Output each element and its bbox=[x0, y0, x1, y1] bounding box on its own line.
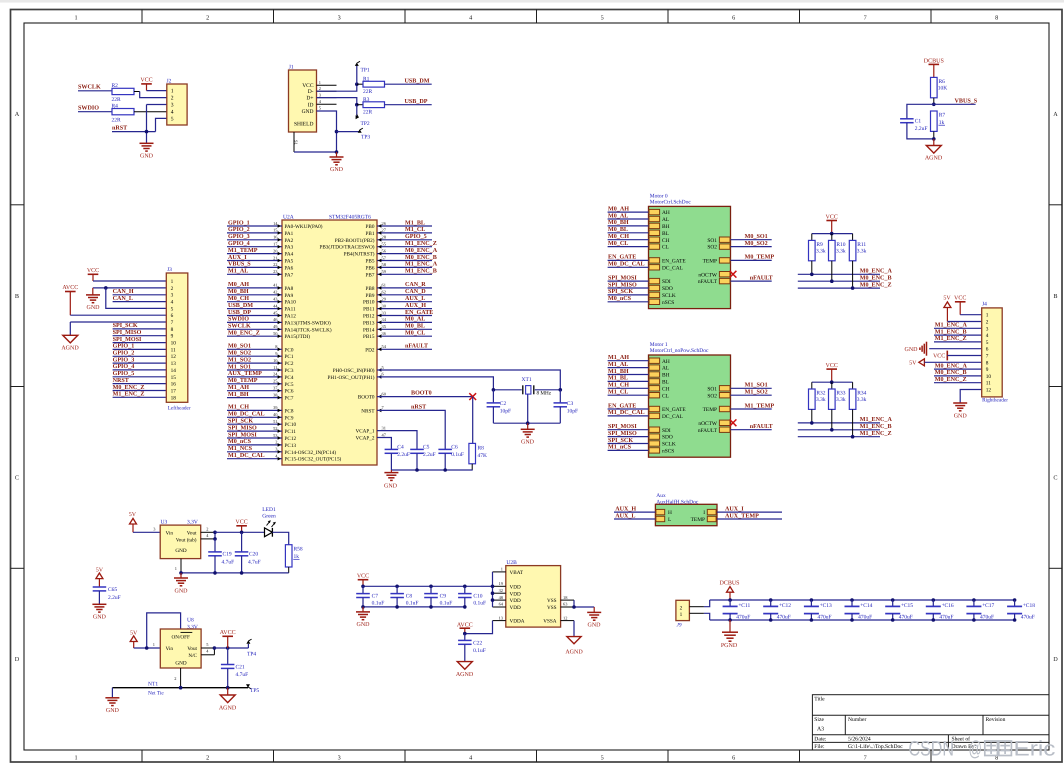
svg-text:PC10: PC10 bbox=[285, 422, 297, 428]
svg-text:GND: GND bbox=[384, 483, 398, 489]
net label USB_DP bbox=[405, 98, 428, 105]
svg-text:PB14: PB14 bbox=[363, 327, 375, 333]
wire SPI_MISO (J3) bbox=[113, 335, 167, 337]
wire GPIO_1 (J3) bbox=[113, 348, 167, 350]
svg-text:M1_AL: M1_AL bbox=[608, 361, 628, 368]
svg-text:0.1uF: 0.1uF bbox=[473, 601, 486, 607]
net label BOOT0 bbox=[411, 390, 432, 397]
wire pullup rail M0 bbox=[812, 233, 853, 235]
power port AVCC (J3) bbox=[62, 285, 78, 315]
svg-text:M1_BL: M1_BL bbox=[405, 219, 425, 226]
net label NRST (J3) bbox=[113, 377, 129, 384]
sheet entry BH / net M0_BH bbox=[608, 219, 670, 230]
junction bank C17 bottom bbox=[972, 618, 976, 622]
svg-text:C9: C9 bbox=[440, 593, 447, 599]
sheet entry SDO / net SPI_MISO bbox=[608, 430, 673, 441]
junction VSS rail C9 bbox=[429, 605, 433, 609]
svg-text:PC4: PC4 bbox=[285, 375, 294, 381]
svg-text:M1_CH: M1_CH bbox=[608, 382, 629, 389]
wire VCAP_2 to C4 bbox=[377, 438, 391, 450]
U2A pin 21 PA5 net AUX_I bbox=[227, 254, 294, 265]
power port VCC (U3 out) bbox=[235, 520, 247, 533]
pin S1 shield stub bbox=[294, 132, 299, 152]
svg-text:C17: C17 bbox=[985, 603, 994, 609]
svg-text:nOCTW: nOCTW bbox=[698, 272, 717, 278]
svg-text:C22: C22 bbox=[473, 641, 482, 647]
capacitor C12 470uF bbox=[763, 600, 791, 620]
svg-text:D-: D- bbox=[308, 89, 314, 95]
testpoint TP3 bbox=[337, 128, 371, 140]
sheet entry CL / net M0_CL bbox=[608, 240, 669, 251]
svg-text:NRST: NRST bbox=[113, 377, 129, 384]
svg-text:51: 51 bbox=[273, 419, 277, 424]
svg-text:M0_DC_CAL: M0_DC_CAL bbox=[608, 261, 645, 268]
sheet entry BL / net M0_BL bbox=[608, 226, 669, 237]
U2A pin 2 PC13 net M0_nCS bbox=[227, 438, 296, 449]
svg-text:VDDA: VDDA bbox=[510, 619, 525, 625]
resistor R6 bbox=[931, 77, 948, 97]
svg-text:A: A bbox=[1053, 111, 1058, 118]
svg-text:M1_CL: M1_CL bbox=[608, 389, 628, 396]
svg-text:GND: GND bbox=[357, 622, 371, 628]
svg-text:52: 52 bbox=[273, 426, 277, 431]
ground GND (SWD) bbox=[140, 143, 154, 159]
svg-text:5/26/2024: 5/26/2024 bbox=[848, 737, 871, 743]
svg-text:SHIELD: SHIELD bbox=[294, 122, 314, 128]
svg-text:M1_ENC_A: M1_ENC_A bbox=[860, 416, 893, 423]
svg-text:GPIO_5: GPIO_5 bbox=[113, 370, 135, 377]
junction crystal left bbox=[492, 388, 496, 392]
svg-text:VCC: VCC bbox=[357, 573, 369, 579]
svg-text:PA7: PA7 bbox=[285, 272, 294, 278]
capacitor C15 470uF bbox=[885, 600, 913, 620]
sheet symbol Motor 1 (MotorCtrl_noPow.SchDoc) bbox=[649, 342, 731, 457]
svg-text:SCLK: SCLK bbox=[662, 293, 676, 299]
svg-text:M0_ENC_A: M0_ENC_A bbox=[405, 247, 438, 254]
power port VCC (J3) bbox=[87, 268, 99, 281]
svg-text:2.2uF: 2.2uF bbox=[423, 452, 436, 458]
net label nRST (U2A) bbox=[411, 403, 426, 410]
wire R6 to VBUS_S bbox=[933, 98, 935, 105]
U2A pin 23 PA7 net M1_AL bbox=[227, 268, 294, 279]
wire 5V to J4 pin8 bbox=[924, 361, 981, 363]
svg-text:TP2: TP2 bbox=[361, 121, 370, 127]
svg-text:5V: 5V bbox=[909, 361, 917, 367]
power port DCBUS (sense) bbox=[924, 58, 944, 77]
svg-text:2: 2 bbox=[319, 86, 321, 91]
net label GPIO_4 (J3) bbox=[113, 363, 135, 370]
svg-text:SO1: SO1 bbox=[707, 386, 717, 392]
svg-text:C19: C19 bbox=[223, 551, 232, 557]
no-ERC marker BOOT0 bbox=[469, 393, 476, 400]
svg-text:VCAP_1: VCAP_1 bbox=[355, 429, 374, 435]
wire U3 gnd rail bbox=[175, 559, 289, 573]
svg-text:0.1uF: 0.1uF bbox=[451, 452, 464, 458]
resistor R32 3.3k bbox=[809, 382, 826, 409]
svg-text:PC1: PC1 bbox=[285, 354, 294, 360]
power port VCC (M0 pullups) bbox=[826, 214, 838, 233]
svg-text:3.3k: 3.3k bbox=[857, 249, 867, 255]
net label M0_ENC_A bbox=[860, 268, 893, 275]
svg-text:GPIO_1: GPIO_1 bbox=[113, 343, 135, 350]
svg-text:M1_NCS: M1_NCS bbox=[228, 445, 253, 452]
junction gnd rail bbox=[179, 571, 243, 575]
wire USB_DM bbox=[385, 83, 432, 85]
svg-text:CL: CL bbox=[662, 393, 669, 399]
wire U3 Vout(tab) pin4 bbox=[201, 532, 215, 539]
svg-text:SWCLK: SWCLK bbox=[78, 84, 101, 91]
svg-text:1: 1 bbox=[74, 14, 77, 21]
capacitor C14 470uF bbox=[845, 600, 873, 620]
wire VCC to J2 pin1 bbox=[147, 90, 167, 92]
svg-text:22: 22 bbox=[273, 262, 277, 267]
svg-text:C10: C10 bbox=[473, 593, 482, 599]
U2A pin 49 PA14(JTCK-SWCLK) net SWCLK bbox=[227, 323, 332, 334]
svg-text:GND: GND bbox=[521, 439, 535, 445]
svg-text:BL: BL bbox=[662, 231, 669, 237]
sheet entry SDI / net SPI_MOSI bbox=[608, 274, 671, 285]
sheet entry EN_GATE / net EN_GATE bbox=[608, 402, 687, 413]
svg-text:M1_AH: M1_AH bbox=[228, 384, 249, 391]
wire GPIO_2 (J3) bbox=[113, 355, 167, 357]
ground GND (J3) bbox=[86, 288, 100, 311]
wire NRST (J3) bbox=[113, 383, 167, 385]
wire M1_ENC_Z (J4) bbox=[934, 341, 982, 343]
U2A pin 58 PB6 net M1_ENC_A bbox=[366, 261, 438, 272]
svg-text:1: 1 bbox=[171, 279, 174, 285]
U2A pin 6 PH1-OSC_OUT bbox=[328, 372, 385, 381]
power port VCC (M1 pullups) bbox=[826, 363, 838, 382]
sheet entry nOCTW (no connect) bbox=[698, 419, 736, 427]
svg-text:3.3k: 3.3k bbox=[816, 397, 826, 403]
capacitor C1 bbox=[900, 119, 927, 133]
svg-text:4.7uF: 4.7uF bbox=[248, 559, 261, 565]
junction NT1 left bbox=[179, 686, 230, 690]
junction nRST/GND bbox=[145, 130, 149, 134]
svg-text:42: 42 bbox=[273, 290, 277, 295]
wire VCC to J4 pin7 bbox=[947, 355, 981, 357]
svg-text:C20: C20 bbox=[249, 551, 258, 557]
U2A pin 17 PA3 net GPIO_4 bbox=[227, 240, 294, 251]
svg-text:2: 2 bbox=[171, 286, 174, 292]
svg-text:SO2: SO2 bbox=[707, 245, 717, 251]
sheet entry SDO / net SPI_MISO bbox=[608, 281, 673, 292]
svg-text:SPI_MOSI: SPI_MOSI bbox=[228, 431, 257, 438]
svg-text:470uF: 470uF bbox=[777, 614, 791, 620]
sheet entry H / net AUX_H bbox=[614, 505, 672, 516]
svg-text:C3: C3 bbox=[567, 401, 574, 407]
svg-text:41: 41 bbox=[273, 283, 277, 288]
svg-text:M1_CH: M1_CH bbox=[228, 404, 249, 411]
svg-text:M1_SO1: M1_SO1 bbox=[745, 382, 768, 389]
svg-text:AUX_L: AUX_L bbox=[405, 295, 425, 302]
U2A pin 54 PD2 net nFAULT bbox=[365, 343, 432, 354]
junction VSS rail C10 bbox=[463, 605, 467, 609]
svg-text:GND: GND bbox=[87, 305, 101, 311]
svg-text:TP1: TP1 bbox=[361, 68, 370, 74]
U2B pin 13 VDDA bbox=[493, 615, 525, 624]
svg-text:PH1-OSC_OUT(PH1): PH1-OSC_OUT(PH1) bbox=[328, 375, 375, 381]
svg-text:PA9: PA9 bbox=[285, 293, 294, 299]
svg-text:AUX_I: AUX_I bbox=[228, 254, 247, 261]
U2B pin 48 VDD bbox=[493, 595, 521, 604]
svg-text:Vout: Vout bbox=[187, 646, 197, 652]
junction VDD bus bbox=[491, 585, 495, 602]
svg-text:PA12: PA12 bbox=[285, 314, 297, 320]
wire M1_ENC_Z bbox=[798, 409, 880, 436]
U2A pin 34 PB13 net M0_AL bbox=[363, 316, 432, 327]
U2A pin 46 PA13(JTMS-SWDIO) net SWDIO bbox=[227, 316, 331, 327]
svg-text:M0_AH: M0_AH bbox=[228, 281, 249, 288]
svg-text:R58: R58 bbox=[294, 547, 303, 553]
sheet entry I / net AUX_I bbox=[703, 505, 782, 516]
svg-text:MotorCtrl_noPow.SchDoc: MotorCtrl_noPow.SchDoc bbox=[650, 348, 709, 354]
svg-text:GND: GND bbox=[175, 588, 189, 594]
svg-text:AL: AL bbox=[662, 217, 669, 223]
svg-text:Date:: Date: bbox=[814, 737, 827, 743]
svg-text:2: 2 bbox=[986, 320, 989, 326]
svg-text:11: 11 bbox=[171, 347, 176, 353]
wire shield to GND bbox=[294, 151, 337, 153]
wire D- to R1 bbox=[317, 84, 357, 91]
svg-text:PA8: PA8 bbox=[285, 286, 294, 292]
svg-text:VBUS_S: VBUS_S bbox=[228, 261, 251, 268]
svg-text:R8: R8 bbox=[478, 446, 485, 452]
sheet entry EN_GATE / net EN_GATE bbox=[608, 254, 687, 265]
svg-text:Vout: Vout bbox=[187, 531, 197, 537]
sheet entry SO1 / net M0_SO1 bbox=[707, 233, 771, 244]
svg-text:R7: R7 bbox=[939, 113, 946, 119]
svg-text:AVCC: AVCC bbox=[62, 285, 78, 291]
svg-text:XT1: XT1 bbox=[522, 377, 532, 383]
watermark CSDN bbox=[909, 738, 1056, 761]
svg-text:M1_CL: M1_CL bbox=[405, 226, 425, 233]
svg-text:nSCS: nSCS bbox=[662, 449, 674, 455]
sheet entry AL / net M1_AL bbox=[608, 361, 670, 372]
wire M0_ENC_A bbox=[798, 261, 880, 275]
net label M1_ENC_Z bbox=[860, 430, 892, 437]
svg-text:1: 1 bbox=[680, 612, 683, 618]
svg-text:H: H bbox=[668, 510, 672, 516]
wire VSS rail (decoupling) bbox=[363, 606, 465, 608]
junction M0_ENC_B bbox=[830, 279, 834, 283]
wire BOOT0 bbox=[377, 396, 473, 398]
svg-text:8: 8 bbox=[986, 360, 989, 366]
U2A pin 43 PA10 net M0_CH bbox=[227, 295, 296, 306]
capacitor C22 bbox=[458, 634, 486, 662]
svg-text:SPI_SCK: SPI_SCK bbox=[113, 322, 138, 329]
svg-text:10: 10 bbox=[986, 374, 992, 380]
wire CAN_H bbox=[113, 294, 167, 296]
svg-text:3: 3 bbox=[338, 14, 341, 21]
svg-text:M0_TEMP: M0_TEMP bbox=[228, 377, 258, 384]
connector J9 bbox=[676, 600, 704, 628]
svg-text:SPI_MOSI: SPI_MOSI bbox=[608, 423, 637, 430]
svg-text:M0_AH: M0_AH bbox=[608, 205, 629, 212]
net label USB_DM bbox=[405, 78, 430, 85]
svg-text:C5: C5 bbox=[423, 444, 430, 450]
net label SPI_MOSI (J3) bbox=[113, 336, 142, 343]
svg-text:DCBUS: DCBUS bbox=[924, 58, 944, 64]
svg-text:nFAULT: nFAULT bbox=[750, 274, 773, 281]
svg-text:Title: Title bbox=[814, 696, 825, 702]
sheet entry nFAULT / net nFAULT bbox=[698, 423, 773, 434]
sheet entry BH / net M1_BH bbox=[608, 368, 670, 379]
U2A pin 9 PC1 net M0_SO2 bbox=[227, 350, 294, 361]
U2A pin 36 PB15 net M0_CL bbox=[363, 330, 432, 341]
svg-text:2: 2 bbox=[171, 95, 174, 101]
connector J3 LeftHeader bbox=[166, 267, 191, 412]
svg-text:Green: Green bbox=[262, 513, 276, 519]
svg-text:1: 1 bbox=[171, 88, 174, 94]
svg-text:PA2: PA2 bbox=[285, 238, 294, 244]
svg-text:PB13: PB13 bbox=[363, 320, 375, 326]
svg-text:EN_GATE: EN_GATE bbox=[662, 407, 686, 413]
U2A pin 25 PC5 net M0_TEMP bbox=[227, 377, 294, 388]
wire nRST to J2 pin3 bbox=[112, 105, 167, 144]
svg-text:VCC: VCC bbox=[140, 78, 152, 84]
svg-text:8: 8 bbox=[171, 327, 174, 333]
power port AVCC (U8) bbox=[220, 630, 236, 648]
svg-text:M1_SO1: M1_SO1 bbox=[228, 363, 251, 370]
svg-text:M1_ENC_Z: M1_ENC_Z bbox=[935, 335, 967, 342]
svg-text:0.1uF: 0.1uF bbox=[406, 601, 419, 607]
svg-text:11: 11 bbox=[273, 365, 277, 370]
ground GND (J4 pin12) bbox=[953, 403, 967, 419]
svg-text:SPI_MISO: SPI_MISO bbox=[228, 424, 257, 431]
svg-text:7: 7 bbox=[864, 14, 867, 21]
U2A pin 24 PC4 net AUX_TEMP bbox=[227, 370, 294, 381]
svg-text:EN_GATE: EN_GATE bbox=[608, 254, 636, 261]
sheet entry SO2 / net M0_SO2 bbox=[707, 240, 771, 251]
junction VBUS_S bbox=[932, 103, 936, 107]
svg-text:AUX_H: AUX_H bbox=[615, 505, 636, 512]
net label SWCLK bbox=[78, 84, 101, 91]
svg-text:M1_ENC_B: M1_ENC_B bbox=[935, 328, 967, 335]
wire VDDA to AVCC bbox=[465, 621, 493, 634]
wire U3 Vout pin2 bbox=[201, 526, 215, 532]
junction VCC rail bbox=[240, 531, 244, 535]
svg-text:M1_TEMP: M1_TEMP bbox=[745, 402, 775, 409]
svg-text:I: I bbox=[703, 510, 705, 516]
junction bank C11 bottom bbox=[728, 618, 732, 622]
svg-text:nRST: nRST bbox=[112, 124, 127, 131]
svg-text:22R: 22R bbox=[112, 117, 122, 123]
capacitor C17 470uF bbox=[966, 600, 994, 620]
svg-text:VCC: VCC bbox=[826, 214, 838, 220]
svg-text:PA6: PA6 bbox=[285, 265, 294, 271]
svg-text:R32: R32 bbox=[816, 390, 825, 396]
sheet entry nFAULT / net nFAULT bbox=[698, 274, 773, 285]
wire nRST to C6 bbox=[377, 410, 445, 449]
U2A pin 53 PC12 net SPI_MOSI bbox=[227, 431, 296, 442]
svg-text:SPI_MOSI: SPI_MOSI bbox=[113, 336, 142, 343]
U2A pin 40 PC9 net M0_DC_CAL bbox=[227, 411, 294, 422]
capacitor C20 bbox=[235, 532, 261, 573]
svg-text:PB2-BOOT1(PB2): PB2-BOOT1(PB2) bbox=[335, 238, 375, 244]
svg-text:M1_BL: M1_BL bbox=[608, 375, 628, 382]
svg-text:0.1uF: 0.1uF bbox=[372, 601, 385, 607]
capacitor C11 470uF bbox=[723, 600, 751, 620]
svg-text:PA15(JTDI): PA15(JTDI) bbox=[285, 334, 311, 340]
svg-text:TEMP: TEMP bbox=[703, 407, 717, 413]
svg-text:C14: C14 bbox=[863, 603, 872, 609]
svg-text:M0_ENC_Z: M0_ENC_Z bbox=[113, 384, 145, 391]
svg-text:CAN_D: CAN_D bbox=[405, 288, 426, 295]
svg-text:PC15-OSC32_OUT(PC15): PC15-OSC32_OUT(PC15) bbox=[285, 457, 342, 463]
U2A pin 44 PA11 net USB_DM bbox=[227, 302, 296, 313]
svg-text:CSDN: CSDN bbox=[909, 738, 955, 761]
resistor R1 bbox=[357, 76, 385, 95]
svg-text:SPI_MISO: SPI_MISO bbox=[608, 430, 637, 437]
svg-text:GND: GND bbox=[954, 413, 968, 419]
sheet entry SCLK / net SPI_SCK bbox=[608, 437, 676, 448]
svg-text:32: 32 bbox=[499, 588, 503, 593]
crystal XT1 bbox=[493, 377, 560, 397]
wire LED to R58 bbox=[272, 532, 288, 544]
U2A pin 50 PA15(JTDI) net M0_ENC_Z bbox=[227, 330, 310, 341]
ic U2B power pins body bbox=[506, 560, 561, 627]
wire VCC to J4 pin1 bbox=[960, 314, 982, 316]
svg-text:C8: C8 bbox=[406, 593, 413, 599]
U2B pin 12 VSSA bbox=[543, 615, 574, 624]
svg-text:5V: 5V bbox=[943, 296, 951, 302]
svg-text:M0_BL: M0_BL bbox=[405, 323, 425, 330]
svg-text:PC3: PC3 bbox=[285, 368, 294, 374]
ic U2A STM32F405RGT6 body bbox=[282, 214, 377, 465]
wire DCBUS top rail bbox=[710, 599, 1015, 601]
svg-text:2: 2 bbox=[206, 526, 208, 531]
capacitor C9 bbox=[424, 586, 452, 607]
svg-text:C65: C65 bbox=[108, 587, 117, 593]
junction bank C15 top bbox=[891, 598, 895, 602]
wire 3.3V rail bbox=[215, 531, 265, 533]
wire GPIO_4 (J3) bbox=[113, 369, 167, 371]
net label SPI_SCK (J3) bbox=[113, 322, 138, 329]
junction M0_ENC_A bbox=[810, 273, 814, 277]
svg-text:M0_ENC_A: M0_ENC_A bbox=[935, 362, 968, 369]
U2A pin 39 PC8 net M1_CH bbox=[227, 404, 294, 415]
title block bbox=[812, 695, 1049, 751]
svg-text:PB15: PB15 bbox=[363, 334, 375, 340]
svg-text:AGND: AGND bbox=[925, 156, 943, 162]
svg-text:3: 3 bbox=[171, 293, 174, 299]
svg-text:D: D bbox=[1053, 656, 1058, 663]
svg-text:7: 7 bbox=[171, 320, 174, 326]
svg-text:DC_CAL: DC_CAL bbox=[662, 414, 683, 420]
junction bank C11 top bbox=[728, 598, 732, 602]
svg-text:M0_CH: M0_CH bbox=[608, 233, 629, 240]
wire USB_DP bbox=[385, 104, 432, 106]
svg-text:M0_SO2: M0_SO2 bbox=[745, 240, 768, 247]
svg-text:M1_ENC_Z: M1_ENC_Z bbox=[113, 391, 145, 398]
svg-text:CL: CL bbox=[662, 245, 669, 251]
svg-text:M1_DC_CAL: M1_DC_CAL bbox=[608, 409, 645, 416]
svg-text:62: 62 bbox=[382, 290, 386, 295]
capacitor C21 bbox=[221, 648, 248, 688]
sheet entry SDI / net SPI_MOSI bbox=[608, 423, 671, 434]
svg-text:1: 1 bbox=[153, 642, 155, 647]
svg-text:B: B bbox=[15, 293, 19, 300]
svg-text:M0_ENC_B: M0_ENC_B bbox=[405, 254, 437, 261]
svg-text:PC5: PC5 bbox=[285, 382, 294, 388]
svg-text:M0_ENC_B: M0_ENC_B bbox=[935, 369, 967, 376]
wire M0_ENC_A (J4) bbox=[934, 368, 982, 370]
wire R4 to J2 pin4 bbox=[134, 111, 167, 113]
svg-text:SWDIO: SWDIO bbox=[78, 105, 99, 112]
wire BOOT0 to R8 bbox=[472, 397, 474, 444]
svg-text:2: 2 bbox=[174, 676, 176, 681]
